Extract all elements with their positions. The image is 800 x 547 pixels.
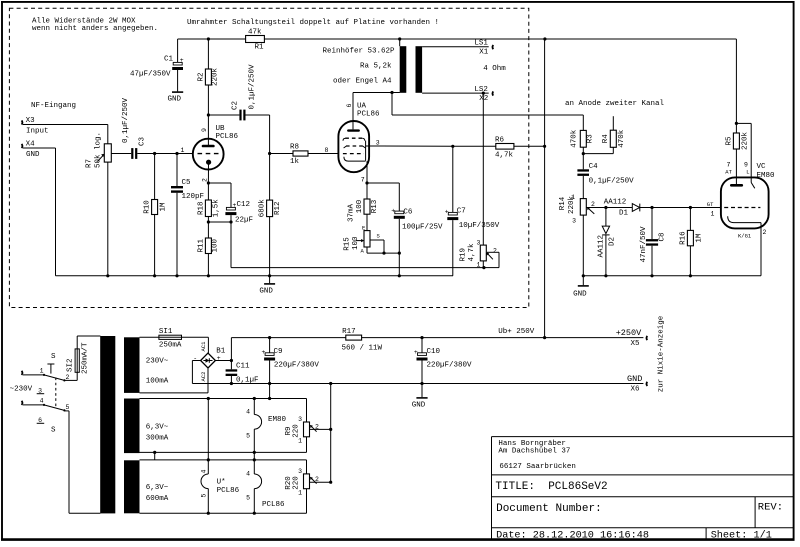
svg-text:Ra 5,2k: Ra 5,2k [360, 63, 392, 71]
svg-text:PCL86: PCL86 [357, 110, 380, 118]
svg-text:2: 2 [763, 229, 767, 236]
wire B+ rail [178, 39, 737, 123]
svg-text:220: 220 [293, 476, 301, 490]
triode UB PCL86 [181, 115, 239, 183]
node junction R10 top [153, 152, 156, 155]
svg-text:zur Nixie-Anzeige: zur Nixie-Anzeige [658, 316, 666, 393]
svg-text:3: 3 [298, 468, 302, 475]
svg-text:R12: R12 [274, 202, 282, 216]
svg-text:+: + [262, 349, 266, 356]
svg-text:3: 3 [376, 139, 380, 146]
svg-text:Document Number:: Document Number: [496, 503, 602, 515]
svg-text:R14: R14 [559, 196, 567, 210]
wire Ub+ rail to X5 [362, 337, 644, 339]
node junction R19 bottom feedback [482, 266, 485, 269]
svg-text:4 Ohm: 4 Ohm [483, 65, 506, 73]
svg-text:R18: R18 [197, 202, 205, 216]
capacitor C4 [577, 154, 634, 199]
wire OPT secondary bottom to LS2 [422, 92, 489, 94]
svg-text:R7: R7 [86, 159, 94, 168]
resistor R13 [348, 183, 380, 231]
svg-text:Am Dachshübel 37: Am Dachshübel 37 [498, 447, 570, 455]
potentiometer R9 [285, 399, 331, 453]
resistor R18 [197, 183, 220, 222]
wire DC rail to R17 [231, 337, 345, 339]
svg-text:7: 7 [361, 176, 365, 183]
svg-text:R16: R16 [679, 231, 687, 245]
svg-text:PCL86: PCL86 [216, 133, 239, 141]
svg-text:+: + [180, 57, 184, 64]
node junction cathode network bottom [207, 220, 210, 223]
heater PCL86 output tube [246, 470, 285, 513]
node junction screen C7 [451, 145, 454, 148]
svg-text:C2: C2 [232, 101, 240, 110]
wire R8 to pentode pin 8 [308, 153, 338, 155]
svg-text:6: 6 [346, 104, 353, 108]
svg-text:5: 5 [66, 404, 70, 411]
node junction heater bus at U* heater [207, 397, 210, 400]
resistor R16 [679, 208, 703, 276]
svg-text:6,3V~: 6,3V~ [146, 484, 169, 492]
wire feedback line from C12 to R19 [231, 222, 484, 268]
potentiometer R15 [344, 224, 385, 254]
dashed frame around duplicated circuit part [9, 8, 528, 307]
wire hum pot wipers to ground [330, 384, 332, 483]
capacitor C12 [225, 201, 253, 225]
ground GND below C10 [412, 384, 428, 410]
node junction R10 bottom on ground bus [153, 274, 156, 277]
svg-text:2: 2 [315, 423, 319, 430]
node junction LS2 feedback tap [482, 92, 485, 95]
node junction R6 at B+ feed [543, 145, 546, 148]
wire Ub+ feed vertical [544, 39, 546, 338]
magic eye UC EM80 [707, 162, 775, 240]
node junction C6 bottom [398, 252, 401, 255]
svg-text:2: 2 [315, 476, 319, 483]
switch S upper [37, 353, 70, 395]
svg-text:8: 8 [325, 147, 329, 154]
svg-text:100µF/25V: 100µF/25V [402, 224, 443, 232]
ground GND right section [573, 276, 589, 299]
svg-text:EM80: EM80 [268, 416, 287, 424]
potentiometer R19 [460, 240, 500, 269]
node junction R12 bottom on ground bus [268, 274, 271, 277]
connector LS1 X1 [474, 40, 493, 57]
svg-text:Sheet: 1/1: Sheet: 1/1 [711, 529, 772, 541]
node junction R14 ground [582, 274, 585, 277]
node junction C10 bottom [420, 382, 423, 385]
node junction U* heater bottom [207, 512, 210, 515]
svg-text:4: 4 [246, 408, 250, 415]
svg-text:1: 1 [298, 437, 302, 444]
node junction C5 bottom on ground bus [175, 274, 178, 277]
svg-text:2: 2 [202, 178, 209, 182]
resistor R11 [197, 222, 219, 276]
svg-text:470k: 470k [570, 129, 578, 148]
node junction D2 bottom [604, 274, 607, 277]
svg-text:2: 2 [591, 201, 595, 208]
wire secondary1 top to bridge AC1 [140, 337, 209, 353]
wire winding series jumper [140, 452, 307, 460]
svg-text:120pF: 120pF [182, 193, 205, 201]
heater U* PCL86 [200, 399, 239, 514]
svg-text:C9: C9 [274, 348, 283, 356]
svg-text:250mA/T: 250mA/T [81, 342, 89, 374]
wire C2 to grid node [269, 115, 271, 154]
pentode UA PCL86 [338, 93, 380, 184]
svg-text:47k: 47k [248, 29, 262, 37]
potentiometer R14 [559, 194, 606, 225]
svg-text:3: 3 [477, 240, 481, 247]
note text resistors [32, 17, 158, 33]
capacitor C8 [640, 208, 667, 276]
resistor R5 [725, 123, 749, 184]
node junction PCL86 heater top [253, 458, 256, 461]
svg-text:X4: X4 [26, 140, 36, 148]
svg-text:220k: 220k [741, 132, 749, 151]
svg-text:R5: R5 [725, 136, 733, 146]
resistor R10 [144, 154, 168, 276]
svg-text:1M: 1M [695, 233, 703, 243]
wire C3 to triode grid [137, 153, 193, 155]
svg-text:GND: GND [573, 291, 587, 299]
svg-text:37mA: 37mA [348, 203, 356, 222]
svg-text:GND: GND [627, 374, 642, 384]
node junction R7 bottom on ground bus [106, 274, 109, 277]
node junction PCL86 heater bottom [253, 512, 256, 515]
svg-text:100: 100 [211, 239, 219, 253]
diode D1 AA112 [604, 199, 640, 218]
connector X4 input ground [22, 140, 40, 159]
svg-text:220: 220 [293, 424, 301, 438]
svg-text:1: 1 [298, 489, 302, 496]
svg-text:Input: Input [26, 127, 49, 135]
svg-text:D2: D2 [608, 237, 616, 246]
svg-text:1: 1 [711, 211, 715, 218]
wire LS2 to R19 [482, 93, 484, 245]
svg-text:X3: X3 [26, 117, 36, 125]
svg-text:220k: 220k [211, 68, 219, 87]
node junction C10 top [420, 336, 423, 339]
svg-text:GT: GT [707, 201, 714, 208]
svg-text:230V~: 230V~ [146, 358, 169, 366]
svg-text:wenn nicht anders angegeben.: wenn nicht anders angegeben. [32, 25, 158, 33]
wire X3 to R7 [23, 125, 108, 144]
node junction R15 wiper [382, 252, 385, 255]
svg-text:C10: C10 [427, 348, 441, 356]
wire pentode screen to R6 [366, 145, 453, 147]
node junction B+ rail at Ub+ feed [543, 37, 546, 40]
svg-text:X1: X1 [479, 49, 489, 57]
wire R7 wiper to C3 [111, 153, 131, 155]
capacitor C3 [122, 97, 147, 158]
svg-text:600mA: 600mA [146, 495, 169, 503]
svg-text:5: 5 [246, 432, 250, 439]
svg-text:+: + [391, 207, 395, 214]
svg-text:S: S [51, 353, 56, 361]
ground bus right [583, 275, 761, 277]
svg-text:R4: R4 [602, 134, 610, 144]
capacitor C9 [262, 338, 320, 399]
svg-text:+: + [414, 349, 418, 356]
svg-text:oder Engel A4: oder Engel A4 [333, 78, 392, 86]
svg-text:220µF/380V: 220µF/380V [427, 361, 473, 369]
wire cathode to C12 [208, 183, 231, 207]
wire R7 bottom [107, 162, 109, 276]
svg-text:~230V: ~230V [10, 385, 33, 393]
svg-text:Reinhöfer 53.62P: Reinhöfer 53.62P [323, 48, 396, 56]
svg-text:10µF/350V: 10µF/350V [459, 222, 500, 230]
svg-text:3: 3 [298, 416, 302, 423]
svg-text:100: 100 [352, 236, 360, 250]
wire cathode to C6 [367, 183, 399, 211]
heater bus 6.3V 300mA top [140, 398, 307, 400]
wire bridge minus to ground bus [192, 361, 200, 384]
svg-text:47µF/350V: 47µF/350V [130, 70, 171, 78]
svg-text:PCL86: PCL86 [217, 487, 240, 495]
svg-text:R2: R2 [197, 72, 205, 81]
svg-text:R15: R15 [344, 237, 352, 251]
resistor R12 [259, 154, 282, 276]
node junction U* heater top [207, 458, 210, 461]
wire eye grid line [606, 207, 632, 209]
capacitor C2 [208, 64, 269, 120]
node junction R9 wiper link [329, 428, 332, 431]
capacitor C6 [391, 207, 443, 253]
svg-text:X5: X5 [631, 340, 641, 348]
heater EM80 [246, 399, 286, 475]
svg-text:100mA: 100mA [146, 377, 169, 385]
svg-text:6,3V~: 6,3V~ [146, 424, 169, 432]
output transformer TR1 secondary bar [416, 46, 423, 93]
power transformer TR2 secondary 6.3V 300mA bar [124, 399, 140, 454]
resistor R1 [246, 29, 265, 52]
note text winding 6.3V 600mA [146, 484, 169, 503]
node junction D2 top [604, 206, 607, 209]
capacitor C5 [171, 154, 204, 276]
svg-text:220µF/380V: 220µF/380V [274, 361, 320, 369]
svg-text:300mA: 300mA [146, 435, 169, 443]
svg-text:AA112: AA112 [598, 235, 606, 258]
ground bus left [56, 275, 454, 277]
svg-text:D1: D1 [619, 209, 629, 217]
node junction R16 top [689, 206, 692, 209]
capacitor C10 [414, 338, 472, 384]
title block frame [492, 437, 794, 540]
svg-text:C7: C7 [457, 208, 466, 216]
svg-text:1: 1 [40, 367, 44, 374]
svg-text:AC2: AC2 [200, 372, 207, 382]
connector LS2 X2 [474, 86, 493, 103]
svg-text:+250V: +250V [616, 328, 642, 338]
svg-text:C6: C6 [403, 209, 413, 217]
svg-text:GND: GND [259, 288, 273, 296]
svg-text:R10: R10 [144, 200, 152, 214]
node junction cathode C6 on ground bus [398, 274, 401, 277]
svg-text:an Anode zweiter Kanal: an Anode zweiter Kanal [565, 100, 665, 108]
svg-text:NF-Eingang: NF-Eingang [31, 102, 76, 110]
node junction C9 top [268, 336, 271, 339]
svg-text:AC1: AC1 [200, 341, 207, 352]
svg-text:0,1µF/250V: 0,1µF/250V [122, 97, 130, 143]
wire OPT primary bottom to pentode plate [353, 93, 400, 116]
svg-text:EM80: EM80 [757, 172, 776, 180]
capacitor C7 [445, 146, 500, 275]
node junction EM80 heater bottom [253, 451, 256, 454]
svg-text:C3: C3 [139, 136, 147, 146]
svg-text:0,1µF/250V: 0,1µF/250V [589, 177, 635, 185]
svg-text:1M: 1M [159, 202, 167, 212]
node junction winding series tap [153, 451, 156, 454]
svg-text:C1: C1 [164, 55, 174, 63]
ground bus PSU [192, 383, 643, 385]
svg-text:VC: VC [757, 163, 767, 171]
svg-text:K/G1: K/G1 [738, 232, 752, 239]
node junction R3 R4 C4 [582, 152, 585, 155]
svg-text:X6: X6 [631, 386, 641, 394]
svg-text:AT: AT [725, 168, 732, 175]
svg-text:LS1: LS1 [474, 40, 488, 48]
node junction Ub+ feed [543, 336, 546, 339]
power transformer TR2 secondary 230V bar [124, 337, 140, 393]
svg-text:4,7k: 4,7k [468, 243, 476, 262]
wire bridge plus to C11 [215, 338, 231, 370]
ground GND on left bus [259, 276, 275, 296]
svg-text:GND: GND [26, 151, 40, 159]
resistor R8 [290, 144, 308, 166]
wire switch to fuse SI2 [64, 336, 100, 380]
node junction heater bus at EM80 heater [253, 397, 256, 400]
node junction hum pot wiper ground [329, 382, 332, 385]
wire secondary1 bottom to bridge AC2 [140, 368, 209, 393]
wire R3 R4 junction [583, 153, 613, 155]
heater bus 6.3V 600mA bottom [140, 512, 307, 514]
node junction C8 top [650, 206, 653, 209]
svg-text:0,1µF/250V: 0,1µF/250V [249, 64, 257, 110]
node junction R20 wiper link [329, 481, 332, 484]
svg-text:U*: U* [217, 479, 226, 487]
svg-text:REV:: REV: [758, 502, 783, 514]
svg-text:TITLE: PCL86SeV2: TITLE: PCL86SeV2 [495, 481, 607, 493]
switch S lower [37, 378, 70, 435]
resistor R3 [570, 129, 594, 153]
svg-text:R6: R6 [495, 136, 505, 144]
svg-text:R3: R3 [587, 134, 595, 144]
note text winding 230V [146, 358, 169, 386]
node junction plate node [390, 91, 393, 94]
svg-text:47nF/50V: 47nF/50V [640, 226, 648, 263]
wire EM80 pin9 feed [736, 123, 751, 182]
svg-text:2: 2 [493, 248, 497, 255]
heater line 300mA bottom [140, 451, 307, 453]
node junction R5 top [735, 122, 738, 125]
wire grid node to R8 [270, 153, 293, 155]
wire OPT secondary top to LS1 [422, 46, 489, 48]
svg-text:5: 5 [200, 494, 207, 498]
power transformer TR2 primary bar [100, 336, 115, 513]
node junction pentode cathode [365, 181, 368, 184]
svg-text:4: 4 [246, 470, 250, 477]
ground GND below C1 [168, 92, 184, 103]
svg-text:SI2: SI2 [66, 358, 74, 372]
svg-text:1,5k: 1,5k [212, 199, 220, 218]
svg-text:4,7k: 4,7k [495, 151, 514, 159]
connector X5 +250V to Nixie [616, 328, 648, 348]
resistor R17 [342, 328, 383, 352]
connector X3 input [22, 117, 49, 136]
node junction triode plate [207, 113, 210, 116]
svg-text:4: 4 [200, 470, 207, 474]
potentiometer R7 [86, 132, 112, 168]
title block address [498, 440, 576, 471]
svg-text:PCL86: PCL86 [262, 501, 285, 509]
svg-text:C5: C5 [182, 179, 192, 187]
node junction triode cathode [207, 181, 210, 184]
svg-text:250mA: 250mA [159, 341, 182, 349]
node junction R16 bottom [689, 274, 692, 277]
node junction heater bus at C9 lead [268, 397, 271, 400]
svg-text:+: + [217, 355, 221, 362]
svg-text:UB: UB [216, 125, 226, 133]
svg-text:SI1: SI1 [159, 328, 173, 336]
svg-text:1: 1 [571, 194, 575, 201]
node junction C8 bottom [650, 274, 653, 277]
svg-text:GND: GND [412, 402, 426, 410]
potentiometer R20 [285, 460, 331, 513]
svg-text:560 / 11W: 560 / 11W [342, 344, 383, 352]
wire R14 pin3 to ground bus [582, 215, 584, 276]
note text output transformer [323, 48, 396, 86]
fuse SI1 [159, 328, 182, 350]
node junction bridge plus [230, 359, 233, 362]
svg-text:C11: C11 [236, 363, 250, 371]
note text winding 6.3V 300mA [146, 424, 169, 443]
diode D2 AA112 [598, 208, 617, 276]
svg-text:R19: R19 [460, 248, 468, 262]
node junction C11 bottom [230, 382, 233, 385]
svg-text:GND: GND [168, 96, 182, 104]
wire cathode bottom link [208, 221, 231, 223]
svg-text:9: 9 [201, 128, 208, 132]
wire X4 to ground bus [23, 148, 56, 276]
capacitor C1 [130, 39, 184, 91]
node junction R11 bottom on ground bus [207, 274, 210, 277]
node junction B+ rail at R2 [207, 37, 210, 40]
svg-text:R17: R17 [342, 328, 356, 336]
wire switch lower to primary bottom [64, 411, 100, 513]
node junction C9 bottom [268, 382, 271, 385]
node junction B+ rail at OPT [398, 37, 401, 40]
wire R15 bottom to C6 bottom [367, 247, 399, 276]
svg-text:R1: R1 [255, 44, 265, 52]
wire EM80 cathode to ground bus [760, 223, 762, 276]
svg-text:22µF: 22µF [235, 217, 253, 225]
svg-text:C8: C8 [659, 232, 667, 241]
svg-text:AA112: AA112 [604, 199, 627, 207]
capacitor C11 [226, 363, 259, 385]
node junction pentode grid node [268, 152, 271, 155]
svg-text:Umrahmter Schaltungsteil doppe: Umrahmter Schaltungsteil doppelt auf Pla… [187, 19, 439, 27]
svg-text:C12: C12 [237, 201, 251, 209]
resistor R4 [602, 116, 626, 153]
svg-text:R8: R8 [290, 144, 299, 152]
svg-text:470k: 470k [618, 129, 626, 148]
node junction C5 top [175, 152, 178, 155]
svg-text:100: 100 [356, 199, 364, 213]
svg-text:2: 2 [66, 374, 70, 381]
wire D1 to EM80 grid [640, 207, 721, 209]
wire plate node to R3 [392, 115, 583, 130]
